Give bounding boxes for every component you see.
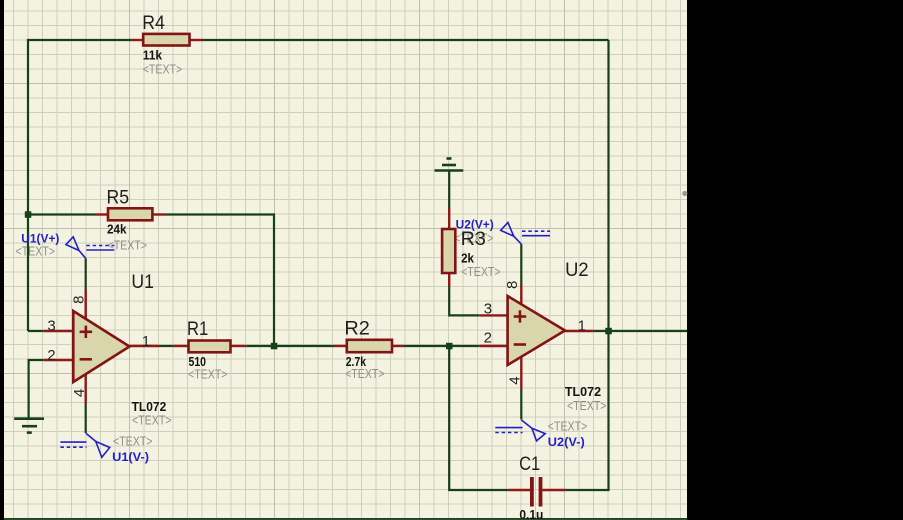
svg-text:R5: R5 <box>107 186 130 208</box>
svg-text:<TEXT>: <TEXT> <box>567 398 607 413</box>
svg-text:<TEXT>: <TEXT> <box>143 61 183 76</box>
svg-text:510: 510 <box>189 356 206 369</box>
svg-text:U2(V+): U2(V+) <box>456 217 494 231</box>
svg-text:<TEXT>: <TEXT> <box>548 418 588 433</box>
svg-text:11k: 11k <box>143 48 163 62</box>
svg-text:2: 2 <box>484 330 492 347</box>
svg-text:TL072: TL072 <box>132 400 167 414</box>
svg-text:TL072: TL072 <box>565 385 601 399</box>
svg-text:U2: U2 <box>565 259 588 280</box>
svg-text:0.1u: 0.1u <box>519 508 543 520</box>
svg-text:<TEXT>: <TEXT> <box>113 434 153 449</box>
svg-text:2.7k: 2.7k <box>346 356 367 369</box>
svg-text:R1: R1 <box>187 318 208 339</box>
svg-text:3: 3 <box>484 301 492 318</box>
svg-text:4: 4 <box>507 376 524 384</box>
svg-text:8: 8 <box>504 281 521 289</box>
svg-text:1: 1 <box>142 333 150 350</box>
svg-text:U1: U1 <box>131 270 154 292</box>
svg-text:1: 1 <box>578 318 586 335</box>
svg-text:R3: R3 <box>461 228 486 250</box>
svg-text:R4: R4 <box>142 11 165 33</box>
svg-text:2: 2 <box>47 347 55 364</box>
svg-text:24k: 24k <box>107 222 127 237</box>
svg-text:8: 8 <box>70 296 87 304</box>
svg-text:U2(V-): U2(V-) <box>548 435 585 449</box>
svg-text:<TEXT>: <TEXT> <box>132 412 172 427</box>
svg-text:U1(V-): U1(V-) <box>112 450 149 464</box>
svg-text:U1(V+): U1(V+) <box>21 231 59 245</box>
svg-text:C1: C1 <box>519 453 540 474</box>
svg-text:2k: 2k <box>461 251 474 266</box>
svg-text:<TEXT>: <TEXT> <box>461 264 501 279</box>
svg-text:<TEXT>: <TEXT> <box>16 243 56 258</box>
svg-text:4: 4 <box>71 389 88 397</box>
svg-text:3: 3 <box>47 317 55 334</box>
svg-text:R2: R2 <box>344 318 369 339</box>
